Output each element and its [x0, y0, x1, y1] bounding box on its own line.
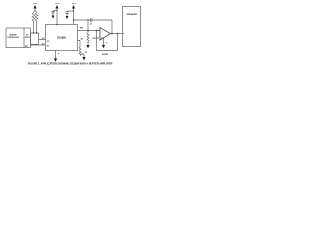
svg-text:10K: 10K: [92, 38, 96, 40]
svg-text:-: -: [102, 30, 103, 33]
svg-text:DC: DC: [47, 46, 50, 48]
svg-text:LM741: LM741: [102, 53, 109, 56]
svg-text:1K: 1K: [85, 52, 88, 54]
svg-text:CONTROLLER: CONTROLLER: [7, 37, 19, 39]
svg-text:+5V: +5V: [33, 3, 37, 5]
svg-text:DS1869: DS1869: [57, 36, 66, 39]
svg-text:VCC: VCC: [72, 3, 77, 5]
svg-text:RL: RL: [81, 39, 84, 41]
svg-text:FIGURE 2. APPLICATION SHOWING: FIGURE 2. APPLICATION SHOWING DS1869 WIT…: [28, 63, 113, 66]
svg-text:PORT: PORT: [25, 37, 31, 39]
svg-text:0.1: 0.1: [90, 23, 93, 25]
svg-text:RW: RW: [80, 28, 83, 30]
svg-text:V-: V-: [106, 42, 108, 44]
svg-text:SPEAKER: SPEAKER: [127, 13, 138, 16]
svg-text:UC: UC: [47, 41, 50, 43]
svg-text:VCC: VCC: [55, 3, 60, 5]
